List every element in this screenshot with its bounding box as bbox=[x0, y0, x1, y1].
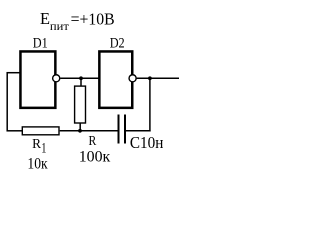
svg-text:10к: 10к bbox=[27, 156, 48, 173]
inverter D1 body bbox=[20, 51, 55, 107]
inverter D1 output bubble bbox=[53, 75, 60, 82]
wire: R top lead bbox=[80, 78, 82, 86]
capacitor C left plate bbox=[118, 115, 120, 144]
wire: right vertical from node B down to capacitor bbox=[149, 78, 151, 131]
junction node A on D1 output bbox=[79, 76, 83, 80]
resistor R1 (10к) body bbox=[22, 127, 59, 135]
wire: left vertical feedback bbox=[6, 72, 8, 132]
junction node C bottom bbox=[78, 129, 82, 133]
svg-text:100к: 100к bbox=[79, 147, 111, 166]
wire: D1 input horizontal bbox=[7, 72, 21, 74]
wire: R bottom lead bbox=[79, 123, 81, 131]
svg-text:1: 1 bbox=[41, 141, 46, 157]
wire: D1 output to D2 input bbox=[60, 77, 98, 79]
supply voltage label Епит=+10В bbox=[40, 9, 115, 33]
junction node B on D2 output bbox=[148, 76, 152, 80]
svg-text:D2: D2 bbox=[110, 35, 125, 51]
svg-text:R: R bbox=[32, 137, 42, 152]
svg-text:=+10В: =+10В bbox=[71, 9, 115, 28]
svg-text:Е: Е bbox=[40, 9, 50, 28]
resistor R (100к) body bbox=[75, 86, 86, 123]
inverter D2 body bbox=[99, 51, 132, 107]
wire: R1 right lead to capacitor bbox=[60, 130, 118, 132]
wire: D2 output to terminal bbox=[137, 77, 179, 79]
wire: capacitor right lead bbox=[126, 130, 151, 132]
svg-text:D1: D1 bbox=[33, 35, 48, 51]
svg-text:С10н: С10н bbox=[130, 133, 164, 152]
svg-text:пит: пит bbox=[50, 21, 69, 33]
inverter D2 output bubble bbox=[129, 75, 136, 82]
capacitor C right plate bbox=[124, 115, 126, 144]
wire: bottom left to R1 bbox=[7, 130, 23, 132]
